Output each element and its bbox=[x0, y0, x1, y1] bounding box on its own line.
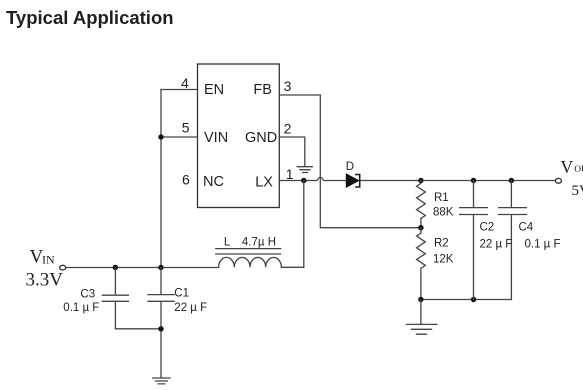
title Typical Application bbox=[6, 7, 174, 28]
svg-text:EN: EN bbox=[204, 82, 224, 98]
node junction C1 top bbox=[158, 265, 163, 270]
svg-text:0.1 µ F: 0.1 µ F bbox=[63, 302, 99, 314]
pin label LX bbox=[255, 174, 273, 190]
wire VIN rail bbox=[66, 267, 219, 269]
svg-text:2: 2 bbox=[284, 121, 292, 137]
label L value bbox=[224, 236, 276, 248]
svg-text:LX: LX bbox=[255, 174, 273, 190]
svg-text:4.7µ H: 4.7µ H bbox=[242, 236, 276, 248]
op-amp U1 IC body bbox=[198, 64, 280, 208]
svg-text:VIN: VIN bbox=[204, 130, 228, 146]
pin number 4 bbox=[181, 75, 189, 91]
svg-text:3.3V: 3.3V bbox=[26, 270, 64, 291]
svg-text:0.1 µ F: 0.1 µ F bbox=[525, 239, 561, 251]
svg-text:D: D bbox=[346, 161, 354, 173]
pin label EN bbox=[204, 82, 224, 98]
label R2 value bbox=[433, 238, 454, 266]
wire output rail bbox=[360, 180, 555, 182]
node junction R2 bottom bbox=[418, 297, 423, 302]
capacitor C4 bbox=[499, 181, 527, 300]
wire VIN pin 5 stub bbox=[161, 136, 198, 138]
wire FB pin 3 to divider tap bbox=[279, 95, 421, 228]
resistor R2 bbox=[417, 228, 426, 300]
ground (output side) bbox=[407, 300, 437, 335]
node junction C3 top bbox=[113, 265, 118, 270]
svg-text:6: 6 bbox=[182, 172, 190, 188]
svg-text:22 µ F: 22 µ F bbox=[480, 239, 513, 251]
label 3.3V bbox=[26, 270, 64, 291]
pin number 1 bbox=[286, 166, 294, 182]
inductor L 4.7uH bbox=[216, 249, 282, 268]
svg-text:C1: C1 bbox=[174, 288, 189, 300]
capacitor C1 bbox=[148, 268, 174, 378]
label C2 bbox=[480, 222, 513, 251]
svg-text:V: V bbox=[561, 157, 574, 177]
wire C3 bottom to C1 leg bbox=[115, 328, 161, 330]
svg-text:C2: C2 bbox=[480, 222, 495, 234]
wire LX pin 1 with hop over FB line bbox=[279, 177, 346, 180]
svg-text:NC: NC bbox=[203, 174, 224, 190]
pin label FB bbox=[253, 82, 272, 98]
svg-text:L: L bbox=[224, 236, 231, 248]
label VOUT terminal bbox=[561, 157, 583, 177]
diode D bbox=[346, 174, 359, 187]
svg-text:5: 5 bbox=[182, 119, 190, 135]
svg-text:88K: 88K bbox=[433, 207, 454, 219]
svg-text:1: 1 bbox=[286, 166, 294, 182]
wire output ground rail bbox=[421, 299, 512, 301]
wire GND pin 2 to ground bbox=[279, 137, 305, 166]
node junction C2 top bbox=[471, 178, 476, 183]
ground (GND pin) bbox=[297, 167, 312, 173]
svg-text:4: 4 bbox=[181, 75, 189, 91]
pin number 3 bbox=[284, 78, 292, 94]
pin number 5 bbox=[182, 119, 190, 135]
node VOUT output terminal bbox=[555, 178, 561, 183]
pin label NC bbox=[203, 174, 224, 190]
pin label VIN bbox=[204, 130, 228, 146]
resistor R1 bbox=[417, 181, 426, 228]
svg-text:R2: R2 bbox=[434, 238, 449, 250]
node junction VIN pin bbox=[158, 134, 163, 139]
svg-text:Typical Application: Typical Application bbox=[6, 7, 174, 28]
svg-text:12K: 12K bbox=[433, 254, 454, 266]
label C3 bbox=[63, 289, 99, 314]
label 5V bbox=[572, 183, 583, 199]
svg-text:GND: GND bbox=[245, 130, 277, 146]
label C1 bbox=[174, 288, 207, 314]
node junction C2 bottom bbox=[471, 297, 476, 302]
label D bbox=[346, 161, 354, 173]
label VIN terminal bbox=[30, 247, 55, 268]
node junction C1 bottom bbox=[158, 326, 163, 331]
svg-text:C3: C3 bbox=[80, 289, 95, 301]
wire input net vertical (EN/VIN to VIN rail) bbox=[160, 90, 162, 268]
pin label GND bbox=[245, 130, 277, 146]
svg-text:C4: C4 bbox=[519, 222, 534, 234]
wire EN pin 4 to input net bbox=[161, 89, 198, 91]
svg-text:FB: FB bbox=[253, 82, 272, 98]
wire LX down to inductor bbox=[282, 181, 304, 268]
pin number 2 bbox=[284, 121, 292, 137]
svg-text:22 µ F: 22 µ F bbox=[174, 302, 207, 314]
label R1 value bbox=[433, 192, 454, 219]
pin number 6 bbox=[182, 172, 190, 188]
label C4 bbox=[519, 222, 561, 251]
ground (input side) bbox=[153, 378, 171, 384]
node VIN input terminal bbox=[60, 265, 66, 270]
svg-text:R1: R1 bbox=[434, 192, 449, 204]
capacitor C2 bbox=[460, 181, 488, 300]
svg-text:OUT: OUT bbox=[574, 165, 583, 175]
node junction LX bbox=[301, 178, 306, 183]
node junction C4 top bbox=[509, 178, 514, 183]
svg-text:5V: 5V bbox=[572, 183, 583, 199]
node junction R1 top bbox=[418, 178, 423, 183]
capacitor C3 bbox=[102, 268, 128, 329]
svg-text:3: 3 bbox=[284, 78, 292, 94]
node junction divider tap bbox=[418, 225, 423, 230]
svg-text:IN: IN bbox=[42, 253, 55, 267]
